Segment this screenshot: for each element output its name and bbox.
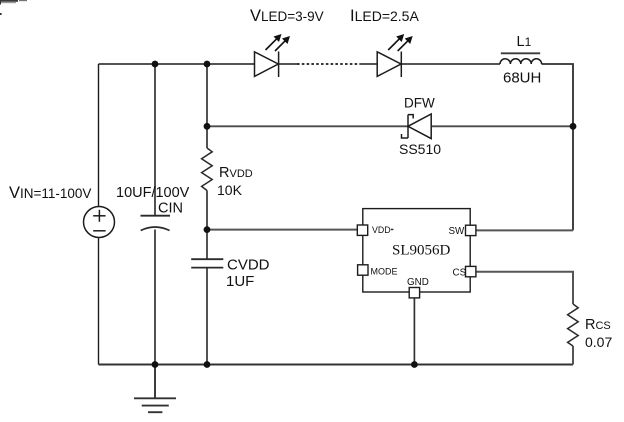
- node rail-GND: [411, 361, 418, 368]
- svg-text:MODE: MODE: [371, 267, 398, 277]
- wire: GND pin stem: [413, 298, 415, 365]
- voltage source V1: [84, 207, 115, 238]
- inductor L1: [500, 53, 542, 64]
- wire: DFW horizontal left part: [207, 125, 408, 127]
- LED D2: [377, 52, 401, 78]
- svg-text:CVDD: CVDD: [227, 257, 270, 274]
- pin CS: [466, 266, 476, 276]
- LED D1 arrows: [266, 34, 291, 51]
- wire: LED2 cathode to inductor: [401, 63, 500, 65]
- svg-text:RVDD: RVDD: [219, 165, 253, 181]
- diode DFW (schottky): [402, 114, 432, 139]
- wire: RCS bottom to rail: [572, 346, 574, 365]
- svg-text:L1: L1: [517, 34, 532, 50]
- wire: inductor to right corner, down to SW: [542, 64, 574, 230]
- pin VDD: [357, 225, 367, 235]
- wire: CIN vertical bottom: [154, 230, 156, 365]
- resistor RVDD: [202, 148, 213, 191]
- node rail-CVDD: [204, 361, 211, 368]
- wire: RVDD bottom to CVDD and rail: [206, 191, 208, 260]
- op-amp/IC U1 SL9056D: [357, 209, 476, 298]
- scan artifact top-left: [0, 0, 27, 15]
- wire: RVDD vertical top: [206, 64, 208, 148]
- wire: left vertical (VIN net): [98, 64, 100, 207]
- svg-text:SS510: SS510: [399, 141, 441, 157]
- node top-CIN: [152, 61, 159, 68]
- node DFW-right: [570, 123, 577, 130]
- svg-text:1UF: 1UF: [226, 273, 254, 290]
- resistor RCS: [568, 304, 579, 346]
- svg-text:RCS: RCS: [585, 317, 611, 333]
- node rail-CIN: [152, 361, 159, 368]
- pin SW: [466, 225, 476, 235]
- node VDD: [204, 226, 211, 233]
- svg-text:10UF/100V: 10UF/100V: [116, 185, 190, 201]
- svg-text:VIN=11-100V: VIN=11-100V: [9, 184, 91, 202]
- wire: LED string solid after LED1: [279, 63, 297, 65]
- node top-RVDD: [204, 61, 211, 68]
- svg-text:0.07: 0.07: [585, 334, 612, 350]
- svg-text:ILED=2.5A: ILED=2.5A: [350, 7, 419, 25]
- LED D1: [255, 52, 279, 78]
- svg-text:GND: GND: [407, 277, 429, 288]
- wire: top rail left segment: [99, 63, 255, 65]
- svg-text:10K: 10K: [217, 182, 243, 198]
- svg-text:DFW: DFW: [404, 96, 435, 111]
- svg-text:CIN: CIN: [158, 201, 183, 217]
- wire: left vertical below source: [98, 238, 100, 365]
- capacitor CVDD: [191, 259, 223, 267]
- wire: SW pin to right vertical: [476, 229, 573, 231]
- ground: [134, 365, 176, 413]
- capacitor CIN: [141, 216, 171, 231]
- wire: VDD pin wire: [207, 229, 357, 231]
- svg-text:SW: SW: [449, 226, 466, 237]
- node DFW-left: [204, 123, 211, 130]
- pin GND: [409, 288, 419, 298]
- LED D2 arrows: [388, 34, 413, 51]
- wire: DFW horizontal right part: [431, 125, 573, 127]
- wire: solid into LED2: [360, 63, 377, 65]
- wire: CS pin to RCS: [476, 272, 573, 304]
- svg-text:SL9056D: SL9056D: [392, 243, 451, 259]
- svg-text:CS: CS: [453, 268, 467, 279]
- pin MODE: [358, 265, 368, 275]
- svg-text:VLED=3-9V: VLED=3-9V: [250, 7, 324, 25]
- wire: dashed segment between LEDs: [297, 63, 360, 65]
- svg-text:VDD: VDD: [372, 225, 391, 235]
- wire: CIN vertical top: [154, 64, 156, 216]
- wire: bottom rail: [99, 364, 574, 366]
- svg-text:68UH: 68UH: [503, 70, 541, 87]
